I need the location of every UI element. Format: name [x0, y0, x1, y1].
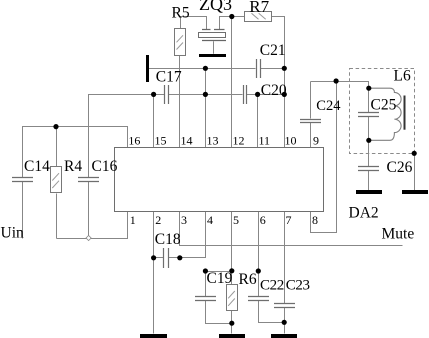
inductor L6 dashed box: [350, 69, 415, 154]
svg-text:R7: R7: [249, 0, 269, 16]
svg-text:C14: C14: [24, 158, 50, 175]
wire C16 bottom lead: [88, 182, 90, 239]
svg-text:C23: C23: [286, 278, 310, 294]
crystal ZQ3 ground bar: [199, 54, 226, 57]
svg-text:13: 13: [207, 134, 219, 148]
capacitor C23 top plate: [274, 303, 295, 305]
ground bar under R6: [219, 334, 245, 338]
node pin-11: [255, 92, 260, 97]
resistor R5: [175, 29, 186, 56]
wire R6 bottom to ground: [231, 311, 233, 334]
resistor R4: [51, 167, 62, 193]
capacitor C25 top plate: [358, 112, 379, 114]
wire R4 bottom lead: [56, 194, 58, 239]
wire C21 right to pin-10 riser: [261, 68, 285, 70]
crystal ZQ3 top plates: [202, 29, 225, 31]
wire pin 7 down to C23: [284, 212, 286, 304]
svg-text:6: 6: [260, 213, 266, 227]
wire C18 right to pin 4: [169, 212, 206, 258]
node pin-13 upper: [203, 66, 208, 71]
capacitor C26 top plate: [358, 166, 379, 168]
svg-text:C24: C24: [316, 98, 341, 114]
svg-text:DA2: DA2: [349, 205, 379, 222]
capacitor C22 bottom plate: [248, 300, 269, 302]
inductor L6 core bar: [404, 96, 406, 130]
wire C24 top lead: [310, 82, 312, 119]
svg-text:C19: C19: [207, 270, 233, 287]
node R4-top/C14: [53, 124, 58, 129]
wire C19 bottom to R6 bottom node: [206, 301, 232, 324]
node pin-2/C18: [151, 255, 156, 260]
wire C25 top lead: [368, 89, 370, 113]
svg-text:Uin: Uin: [1, 224, 25, 241]
wire C22 bottom to C23 node: [259, 301, 285, 323]
capacitor C18 left plate: [163, 248, 165, 268]
crystal ZQ3 body: [199, 33, 226, 38]
wire L6 box corner to ground: [414, 154, 416, 191]
wire R4 top lead: [56, 127, 58, 167]
ground bar under C26: [356, 190, 382, 194]
node pin-5/R6: [229, 268, 234, 273]
ground bar under C23: [271, 334, 297, 338]
svg-text:12: 12: [233, 134, 245, 148]
wire pin 2 down to ground: [153, 212, 155, 334]
svg-text:Mute: Mute: [382, 226, 415, 243]
wire pin 6 down to C22: [258, 212, 260, 297]
capacitor C24 top plate: [300, 119, 321, 121]
capacitor C21 right plate: [260, 59, 262, 78]
node L6/C25 bottom: [366, 138, 371, 143]
svg-text:4: 4: [207, 213, 213, 227]
svg-text:R5: R5: [172, 4, 190, 21]
crystal ZQ3 bottom plate: [202, 40, 226, 42]
svg-text:C25: C25: [371, 96, 397, 113]
wire R5 top to ZQ3 left terminal: [181, 17, 207, 30]
svg-text:ZQ3: ZQ3: [199, 0, 232, 14]
node pin-6/C22: [256, 268, 261, 273]
svg-text:C26: C26: [387, 159, 413, 176]
capacitor C14 top plate: [12, 177, 33, 179]
capacitor C17 right plate: [168, 85, 170, 104]
crystal ZQ3 case lead: [213, 41, 215, 54]
capacitor C18 right plate: [168, 248, 170, 268]
inductor L6 coil: [369, 88, 401, 140]
capacitor C22 top plate: [248, 296, 269, 298]
svg-text:C18: C18: [155, 231, 181, 248]
wire L6 bottom node to C26: [368, 141, 370, 167]
wire R5 bottom to pin 14: [179, 56, 181, 148]
svg-text:R6: R6: [239, 271, 257, 288]
node C18 right: [177, 255, 182, 260]
ground bar left (vertical): [146, 55, 149, 82]
svg-text:16: 16: [128, 134, 140, 148]
svg-text:C22: C22: [260, 278, 284, 294]
capacitor C23 bottom plate: [274, 307, 295, 309]
capacitor C26 bottom plate: [358, 170, 379, 172]
node pin-10: [282, 92, 287, 97]
wire pin 11 lead: [257, 95, 259, 148]
svg-text:3: 3: [181, 213, 187, 227]
wire pin 13 lead: [205, 69, 207, 148]
capacitor C19 top plate: [195, 296, 216, 298]
node L6 box corner: [412, 151, 417, 156]
ground bar under L6 box: [402, 190, 428, 194]
capacitor C20 right plate: [246, 85, 248, 104]
svg-text:5: 5: [233, 213, 239, 227]
capacitor C20 left plate: [243, 85, 245, 104]
wire R7 right riser down to pin 10: [272, 17, 285, 148]
wire pin 8 jog riser: [311, 82, 337, 233]
svg-text:10: 10: [285, 134, 297, 148]
node C23 bottom: [282, 320, 287, 325]
svg-text:C16: C16: [92, 158, 118, 175]
node C19 top: [203, 268, 208, 273]
capacitor C24 bottom plate: [300, 122, 321, 124]
resistor R6: [227, 285, 238, 311]
capacitor C19 bottom plate: [195, 300, 216, 302]
svg-text:L6: L6: [394, 68, 411, 85]
node ZQ3-right/R7/pin-12: [229, 14, 234, 19]
wire C14 bottom to Uin terminal: [22, 182, 24, 239]
wire C17 right to C20 left: [169, 94, 243, 96]
wire pin 9 node to L6 top node: [311, 82, 369, 89]
node pin-15: [151, 92, 156, 97]
resistor R7: [245, 12, 272, 22]
node C16 bottom (open diamond): [86, 235, 91, 240]
svg-text:1: 1: [130, 213, 136, 227]
node pin-8 riser: [334, 78, 339, 83]
svg-text:C20: C20: [261, 82, 287, 99]
svg-text:R4: R4: [64, 158, 82, 175]
capacitor C14 bottom plate: [12, 181, 33, 183]
svg-text:C21: C21: [260, 42, 286, 59]
svg-text:14: 14: [181, 134, 193, 148]
capacitor C16 bottom plate: [78, 181, 99, 183]
wire riser to pin 12: [231, 17, 233, 148]
svg-text:11: 11: [259, 134, 271, 148]
ground bar under pin 2: [140, 334, 167, 338]
wire C19 top to R6 node: [206, 271, 232, 273]
svg-text:7: 7: [286, 213, 292, 227]
svg-text:C17: C17: [156, 68, 182, 85]
wire ground-bar to C21 left: [149, 68, 256, 70]
capacitor C16 top plate: [78, 177, 99, 179]
capacitor C17 left plate: [164, 85, 166, 104]
wire C26 bottom to ground: [368, 171, 370, 191]
wire pin 15 lead: [153, 95, 155, 148]
wire ZQ3 right terminal to R7 left: [220, 17, 245, 30]
svg-text:8: 8: [312, 213, 318, 227]
wire C14 top to pin 16: [23, 127, 128, 178]
capacitor C21 left plate: [256, 59, 258, 78]
svg-text:2: 2: [155, 213, 161, 227]
wire C18 left lead: [154, 257, 164, 259]
capacitor C25 bottom plate: [358, 116, 379, 118]
wire bottom-left bus to pin 1: [57, 212, 128, 239]
wire C24 bottom to pin 9: [310, 123, 312, 148]
wire C19 top lead: [205, 272, 207, 297]
node R6 bottom: [229, 321, 234, 326]
node pin-13 lower: [203, 92, 208, 97]
svg-text:9: 9: [313, 134, 319, 148]
wire C16 top up and right to C17 left: [89, 95, 165, 178]
wire pin 3 to Mute terminal: [180, 212, 403, 246]
wire pin 5 down to R6 top: [231, 212, 233, 285]
wire C25 bottom lead: [368, 117, 370, 141]
node C21-right/pin-10 riser: [282, 66, 287, 71]
svg-text:15: 15: [155, 134, 167, 148]
op-amp/IC DA2 box: [115, 148, 324, 212]
wire C20 right to pin-10 riser: [247, 94, 285, 96]
node L6/C25 top: [366, 86, 371, 91]
wire C23 bottom to ground: [284, 308, 286, 334]
